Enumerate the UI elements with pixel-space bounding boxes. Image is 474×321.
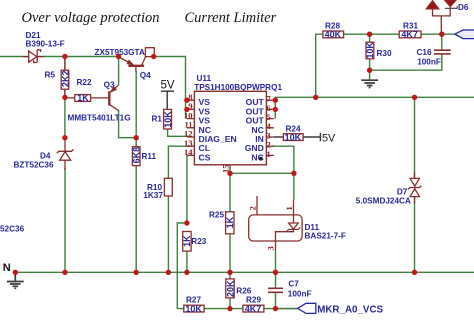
svg-text:10K: 10K — [365, 42, 375, 59]
wire R28 to R31 — [344, 33, 400, 35]
svg-text:BAS21-7-F: BAS21-7-F — [305, 231, 346, 240]
junction (275.3,109.4) — [273, 107, 278, 112]
wire R10 bottom to rail — [167, 196, 169, 272]
wire pin15 row — [230, 168, 294, 173]
TVS diode D7 5.0SMDJ24CA — [408, 172, 422, 204]
svg-text:R28: R28 — [325, 21, 340, 30]
junction (65,272.3) — [62, 270, 67, 275]
resistor R1 10K — [152, 109, 173, 129]
resistor R29 4K7 — [243, 296, 264, 314]
diode D21 B390-13-F — [23, 50, 44, 63]
wire R28 column — [316, 34, 323, 97]
junction (64.9,56.5) — [62, 54, 67, 59]
wire R5 column — [64, 57, 66, 138]
svg-text:10K: 10K — [163, 111, 173, 128]
wire C7 top to rail — [275, 272, 277, 287]
junction (15.3,272.3) — [13, 270, 18, 275]
svg-text:10K: 10K — [185, 304, 202, 314]
resistor R27 10K — [184, 296, 204, 314]
svg-text:R29: R29 — [246, 296, 261, 305]
wire R31 to flag — [421, 33, 455, 35]
svg-text:4K7: 4K7 — [401, 30, 418, 40]
junction (275.5,308.6) — [273, 306, 278, 311]
transistor Q4 ZX5T953GTA — [119, 57, 146, 72]
resistor R10 1K37 — [143, 178, 172, 200]
junction (441.8,34.2) — [439, 32, 444, 37]
junction (118.6,56.5) — [116, 54, 121, 59]
wire CS column — [187, 155, 190, 223]
svg-text:5.0SMDJ24CA: 5.0SMDJ24CA — [356, 197, 411, 206]
wire Q3 emitter column — [118, 57, 120, 86]
svg-text:1: 1 — [284, 206, 294, 210]
svg-text:3: 3 — [266, 246, 276, 250]
wire Q4 base down to R11 — [135, 71, 137, 147]
svg-text:TPS1H100BQPWPRQ1: TPS1H100BQPWPRQ1 — [194, 83, 282, 92]
wire MKR row to flag — [276, 308, 298, 310]
svg-text:2K2: 2K2 — [60, 70, 70, 87]
svg-text:10K: 10K — [285, 132, 302, 142]
svg-text:U11: U11 — [197, 74, 212, 83]
svg-text:R26: R26 — [236, 286, 251, 295]
flag top right — [455, 30, 474, 39]
resistor R23 1K — [182, 232, 207, 252]
svg-text:R30: R30 — [377, 49, 392, 58]
junction (230,173.3) — [227, 171, 232, 176]
junction (414.5,272.3) — [412, 270, 417, 275]
svg-text:Current Limiter: Current Limiter — [185, 10, 277, 26]
diode D11 BAS21-7-F — [249, 196, 302, 250]
svg-text:40K: 40K — [325, 30, 342, 40]
resistor R11 6K8 — [132, 147, 157, 166]
junction (64.9,97.4) — [62, 95, 67, 100]
wire C7 bottom to R29 row — [275, 293, 277, 309]
junction (136.2,137.7) — [134, 135, 139, 140]
junction (186.9,223) — [184, 220, 189, 225]
junction (230,272.3) — [227, 270, 232, 275]
junction (230,308.6) — [227, 306, 232, 311]
resistor R31 4K7 — [399, 21, 421, 39]
svg-text:Q3: Q3 — [104, 80, 115, 89]
svg-text:B390-13-F: B390-13-F — [26, 40, 65, 49]
wire C16 leads — [370, 34, 442, 79]
svg-text:N: N — [3, 262, 11, 274]
svg-text:5V: 5V — [161, 80, 175, 92]
svg-text:D4: D4 — [40, 152, 51, 161]
wire Q3 collector to R11 — [119, 110, 137, 138]
resistor R25 1K — [209, 211, 235, 234]
svg-text:R24: R24 — [286, 125, 301, 134]
capacitor C16 100nF — [434, 50, 451, 54]
supply 5V above R1 — [161, 91, 174, 109]
svg-text:R27: R27 — [186, 296, 201, 305]
svg-text:2: 2 — [248, 206, 258, 210]
stray dot near pin1 NC — [259, 157, 263, 161]
junction (186.9,100.2) — [184, 98, 189, 103]
wire CL to R10 — [168, 146, 190, 178]
junction (369.6,68.7) — [367, 68, 372, 73]
svg-text:6K8: 6K8 — [132, 147, 142, 164]
wire R23 bottom to rail — [186, 251, 188, 272]
wire pin15 to R25 — [229, 173, 231, 212]
IC U11 TPS1H100BQPWPRQ1 — [184, 74, 282, 173]
wire R30 leads — [369, 34, 371, 70]
junction (275.5,272.3) — [273, 270, 278, 275]
junction (275.3,100.2) — [273, 98, 278, 103]
resistor R28 40K — [323, 21, 344, 39]
svg-text:C16: C16 — [417, 48, 432, 57]
wire top rail left — [0, 57, 186, 119]
resistor R24 10K — [274, 125, 336, 145]
ground left — [7, 272, 24, 288]
svg-text:MKR_A0_VCS: MKR_A0_VCS — [317, 304, 383, 315]
svg-text:R11: R11 — [142, 152, 157, 161]
svg-text:100nF: 100nF — [417, 58, 441, 67]
wire D7 column — [414, 97, 416, 272]
transistor Q3 MMBT5401LT1G — [109, 85, 118, 111]
collector square box — [145, 48, 154, 57]
junction (168.4,272.3) — [166, 270, 171, 275]
svg-text:R31: R31 — [403, 21, 418, 30]
wire D11 pin3 to rail — [275, 250, 277, 272]
junction (64.9,137.7) — [62, 135, 67, 140]
wire R26 column — [229, 272, 231, 308]
wire R27 R29 row — [204, 308, 297, 310]
junction (369.6,34.2) — [367, 32, 372, 37]
wire GND pin to D11 — [272, 146, 294, 199]
svg-text:R23: R23 — [191, 237, 206, 246]
junction (153.7,56.5) — [151, 54, 156, 59]
capacitor C7 100nF — [268, 288, 283, 292]
dual diode D6 — [426, 0, 457, 34]
svg-text:100nF: 100nF — [288, 289, 312, 298]
svg-text:4K7: 4K7 — [245, 304, 262, 314]
junction (136.2,272.3) — [134, 270, 139, 275]
svg-text:1K: 1K — [225, 216, 235, 228]
junction (315.7,97.3) — [313, 95, 318, 100]
svg-text:5V: 5V — [322, 132, 336, 144]
junction (186.9,109.4) — [184, 107, 189, 112]
wire OUT bus — [274, 97, 474, 118]
wire R11 bottom to rail — [135, 165, 137, 272]
svg-text:C7: C7 — [288, 280, 299, 289]
wire R25 bottom to rail — [229, 234, 231, 272]
flag MKR_A0_VCS — [298, 303, 384, 315]
svg-text:Over voltage protection: Over voltage protection — [22, 10, 160, 26]
resistor R26 20K — [225, 279, 251, 298]
svg-text:20K: 20K — [225, 280, 235, 297]
svg-text:1: 1 — [266, 149, 270, 159]
svg-text:R5: R5 — [45, 71, 56, 80]
ground at R30 — [361, 80, 378, 87]
svg-text:1K37: 1K37 — [143, 191, 163, 200]
junction (186.9,272.3) — [184, 270, 189, 275]
svg-text:Q4: Q4 — [140, 71, 151, 80]
svg-text:BZT52C36: BZT52C36 — [14, 161, 54, 170]
svg-text:MMBT5401LT1G: MMBT5401LT1G — [68, 114, 131, 123]
svg-text:D6: D6 — [458, 3, 469, 12]
resistor R22 1K — [66, 78, 109, 103]
wire CS branch to R27 — [177, 223, 187, 309]
svg-text:R25: R25 — [209, 211, 224, 220]
resistor R5 2K2 — [45, 58, 71, 95]
junction (414.5,97.3) — [412, 95, 417, 100]
zener diode D4 BZT52C36 — [57, 138, 74, 170]
svg-text:52C36: 52C36 — [0, 225, 25, 234]
wire D4 to rail — [64, 168, 66, 272]
svg-text:D7: D7 — [397, 188, 408, 197]
junction (293.9,173.3) — [291, 171, 296, 176]
wire R1 bottom to DIAG_EN — [168, 129, 190, 136]
svg-text:CS: CS — [199, 152, 211, 162]
svg-text:R22: R22 — [77, 78, 92, 87]
resistor R30 10K — [365, 42, 392, 59]
wire bottom rail — [15, 271, 474, 273]
svg-text:1K: 1K — [77, 93, 89, 103]
svg-text:R1: R1 — [152, 114, 163, 123]
svg-text:14: 14 — [184, 147, 193, 157]
